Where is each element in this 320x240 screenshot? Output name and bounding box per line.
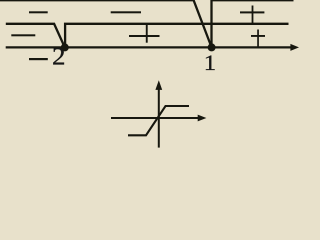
- number line axis: [6, 46, 291, 48]
- minus sign, upper row, left of -2: [29, 11, 48, 13]
- wire lower-curve right part: vertical rising from node -2, then level line to right: [65, 24, 288, 46]
- minus sign, lower row, left of -2: [11, 34, 35, 36]
- wire upper-curve right part: vertical rising from node 1, then level line to right: [212, 0, 294, 46]
- node 1 dot: [208, 43, 216, 51]
- plus sign, right of 1 below level line: [251, 35, 265, 37]
- graph y-axis: [158, 87, 160, 148]
- graph y-axis arrowhead: [155, 80, 162, 90]
- minus sign, upper row, between -2 and 1: [111, 11, 141, 13]
- plus sign, lower row, between -2 and 1: [129, 35, 160, 37]
- saturation curve: [128, 106, 189, 135]
- graph x-axis: [111, 117, 199, 119]
- label -2 minus bar: [29, 58, 48, 60]
- plus sign, upper-right area between level lines: [240, 11, 264, 13]
- node -2 dot: [61, 43, 69, 51]
- graph x-axis arrowhead: [198, 115, 207, 122]
- wire upper-curve left level line (clipped at top) and diagonal down into node 1: [0, 0, 212, 47]
- svg-text:1: 1: [204, 51, 216, 76]
- wire lower-curve left level line and diagonal down into node -2: [6, 24, 65, 48]
- axis arrowhead: [290, 44, 299, 51]
- svg-text:2: 2: [52, 42, 65, 70]
